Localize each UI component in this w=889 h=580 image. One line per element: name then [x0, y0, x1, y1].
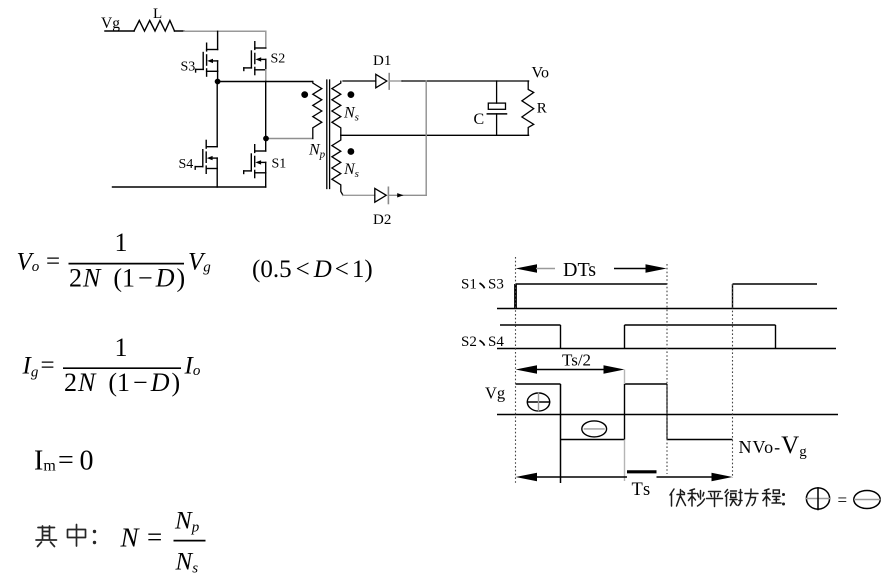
char 平 — [707, 492, 723, 507]
wire Vg lead — [105, 30, 134, 32]
Vg low 1 — [561, 439, 625, 441]
inductor L — [134, 21, 175, 32]
S2S4 pulse 2 rise edge — [624, 325, 626, 349]
svg-text:Vg: Vg — [101, 15, 120, 32]
Ts measure arrow — [516, 473, 538, 482]
S2S4 pulse 2 high — [625, 324, 776, 326]
svg-text:C: C — [474, 111, 485, 128]
svg-text:D2: D2 — [373, 212, 391, 228]
arrowhead on D2 wire — [397, 193, 403, 197]
wire crossbar node A to primary top — [218, 81, 313, 83]
svg-text:S2: S2 — [461, 334, 477, 350]
Vg high 1 — [516, 383, 561, 385]
char 衡 — [725, 490, 742, 507]
plus volt-second area symbol — [527, 393, 549, 411]
resistor R — [522, 81, 534, 135]
svg-text:2N(1−D): 2N(1−D) — [69, 264, 185, 293]
svg-text:S4: S4 — [179, 157, 194, 172]
wire inductor to feeder — [175, 30, 185, 32]
svg-text:D1: D1 — [373, 53, 391, 69]
wire S4 drain from node A — [216, 82, 218, 147]
svg-text:Ts: Ts — [632, 480, 652, 500]
capacitor C — [488, 103, 505, 109]
Vg rise edge — [624, 384, 626, 440]
wire secondary bottom to D2 anode — [343, 194, 375, 196]
node A junction dot — [215, 79, 221, 85]
S2S4 fall edge — [560, 325, 562, 349]
axis Vg baseline — [497, 414, 838, 416]
wire D1 cathode to output top rail — [389, 80, 402, 82]
capacitor C lead top — [496, 81, 498, 103]
svg-text:=: = — [41, 352, 55, 379]
wire center tap rail — [341, 134, 529, 136]
equation 1: Vo = 1/(2N(1-D)) Vg — [17, 228, 373, 293]
svg-text:L: L — [153, 6, 162, 22]
equation 2: Ig = 1/(2N(1-D)) Io — [22, 333, 201, 397]
transistor S1 — [244, 145, 266, 178]
svg-text:=: = — [58, 445, 74, 476]
S2S4 pulse 1 high — [500, 324, 561, 326]
Vg fall edge 2 — [666, 384, 668, 440]
wire node B to primary bottom (gray) — [266, 138, 313, 140]
svg-text:NVo-Vg: NVo-Vg — [739, 432, 808, 460]
minus volt-second area symbol — [582, 421, 607, 437]
transformer secondary winding Ns (top) — [332, 81, 341, 135]
dotted timeline t0 — [515, 257, 517, 483]
transistor S2 — [244, 42, 266, 75]
svg-text:0: 0 — [80, 446, 94, 477]
svg-text:Vg: Vg — [485, 384, 505, 403]
char 中 — [68, 525, 86, 547]
svg-text:DTs: DTs — [563, 259, 596, 281]
transformer secondary winding Ns (bottom) — [332, 135, 343, 195]
svg-text:N: N — [120, 523, 141, 553]
DTs measure arrow — [516, 264, 538, 273]
plus symbol in balance equation — [806, 487, 880, 510]
svg-text:S4: S4 — [488, 334, 504, 350]
svg-text:S3: S3 — [488, 277, 504, 293]
svg-text:S3: S3 — [181, 60, 196, 75]
minus symbol in balance equation — [854, 491, 880, 509]
wire S3 source down to node A — [217, 71, 219, 81]
svg-text:Vo: Vo — [532, 65, 550, 82]
char 程 — [763, 489, 782, 506]
axis S1S3 baseline — [497, 308, 837, 310]
svg-text:1: 1 — [115, 333, 128, 362]
S1S3 pulse 2 high — [733, 283, 818, 285]
S1S3 rise edge t0 (bold) — [514, 284, 517, 309]
svg-text:S1: S1 — [272, 157, 287, 172]
transistor S4 — [195, 140, 217, 173]
transformer core — [326, 80, 328, 189]
secondary bottom phasing dot — [348, 148, 355, 155]
gray timeline Ts/2 — [624, 370, 626, 385]
diode D2 — [375, 188, 386, 202]
label 伏秒平衡方程: (hand-drawn strokes) — [670, 489, 784, 507]
Vg high 2 — [625, 383, 668, 385]
axis S2S4 baseline — [497, 348, 836, 350]
secondary top phasing dot — [348, 91, 355, 98]
svg-text:1: 1 — [115, 228, 128, 257]
wire top feeder (gray) to S2 drain — [184, 31, 266, 48]
char 其 — [36, 526, 57, 547]
char 秒 — [688, 489, 705, 506]
transformer T1 primary winding Np — [313, 82, 322, 139]
fullwidth colon — [93, 532, 96, 543]
S1S3 pulse 2 rise edge — [732, 284, 734, 309]
svg-text:Ts/2: Ts/2 — [562, 351, 591, 370]
dotted timeline Ts — [732, 284, 734, 478]
colon — [782, 495, 785, 505]
wire secondary top to D1 anode — [343, 80, 376, 82]
char 伏 — [670, 489, 686, 506]
wire rectifier bus vertical (gray) — [425, 81, 427, 195]
primary phasing dot — [301, 91, 308, 98]
diode D1 — [376, 74, 387, 88]
svg-text:R: R — [537, 101, 547, 117]
char 方 — [745, 489, 758, 506]
svg-text:S2: S2 — [271, 52, 286, 67]
label 其中： (hand-drawn strokes) — [36, 525, 95, 547]
wire S2 source down to crossbar (gray) — [265, 70, 267, 82]
svg-text:=: = — [147, 522, 162, 552]
wire S1 source to bottom rail — [265, 173, 267, 187]
wire S3 drain to feeder — [217, 31, 219, 49]
Vg fall edge long vertical — [560, 384, 562, 483]
cjk comma — [480, 283, 485, 288]
wire D2 cathode to bus (gray) — [388, 194, 426, 196]
svg-text:2N(1−D): 2N(1−D) — [64, 368, 180, 397]
equation 4: N = Np/Ns — [120, 508, 206, 577]
Vg low 2 — [667, 439, 733, 441]
S1S3 pulse 1 high — [516, 283, 668, 285]
wire bottom return rail — [113, 186, 266, 188]
wire S4 source to bottom rail — [216, 169, 218, 188]
capacitor C lead bottom — [496, 114, 498, 135]
wire S2-S1 midpoint vertical — [265, 82, 267, 152]
node B junction dot — [263, 136, 269, 142]
dotted timeline DTs — [666, 264, 668, 474]
S2S4 pulse 2 fall edge — [775, 325, 777, 349]
svg-text:=: = — [46, 248, 60, 275]
svg-text:=: = — [838, 491, 848, 510]
svg-text:S1: S1 — [461, 277, 477, 293]
transistor S3 — [196, 43, 218, 76]
equation 3: Im = 0 — [34, 445, 94, 477]
